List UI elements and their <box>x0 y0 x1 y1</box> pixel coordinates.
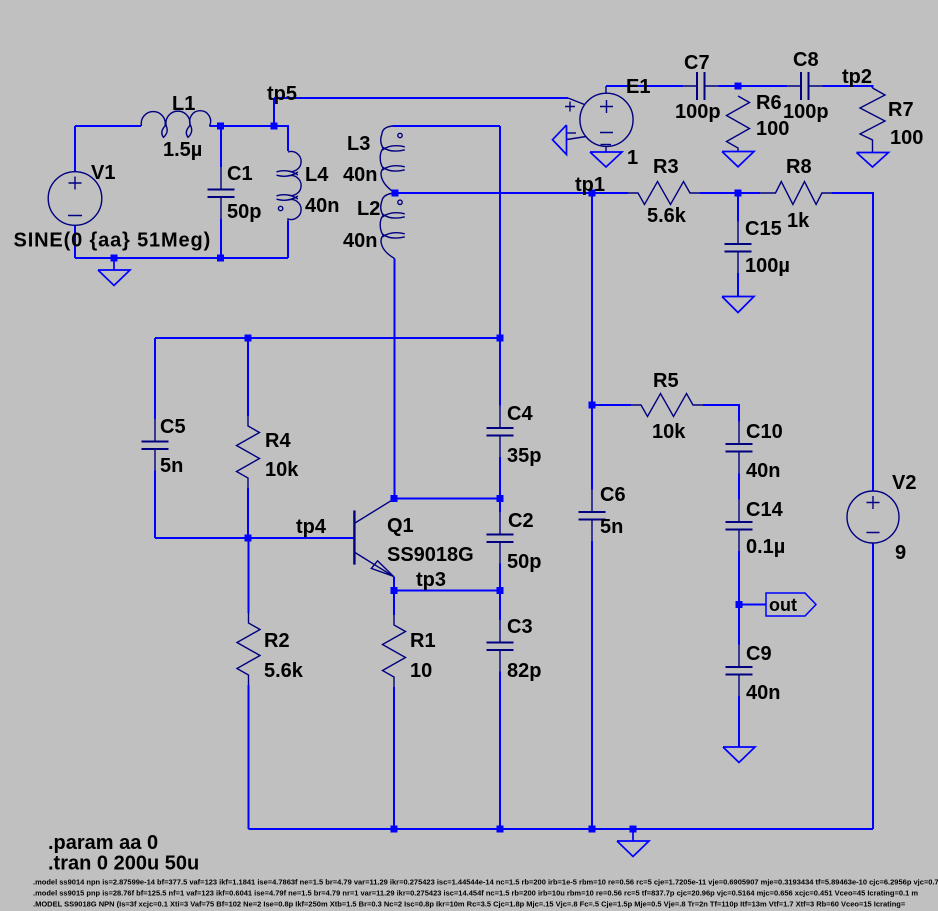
phase dot L3 <box>398 133 402 137</box>
svg-text:C10: C10 <box>746 421 783 443</box>
resistor R5 <box>631 394 703 417</box>
wire C7 to R6 node <box>719 85 739 87</box>
svg-text:C4: C4 <box>507 403 533 425</box>
svg-text:tp2: tp2 <box>842 66 872 88</box>
svg-text:9: 9 <box>895 542 906 564</box>
wire R3 right <box>700 192 738 194</box>
capacitor C7 <box>683 85 719 87</box>
transistor Q1 base bar <box>353 511 355 565</box>
svg-text:R5: R5 <box>653 370 679 392</box>
wire R8 right to V2 branch <box>832 193 873 491</box>
node C1 top <box>217 123 224 130</box>
ground under V1 <box>98 258 130 286</box>
svg-text:1.5µ: 1.5µ <box>163 139 202 161</box>
svg-text:5.6k: 5.6k <box>647 205 687 227</box>
svg-text:R4: R4 <box>265 430 291 452</box>
node C3 bus <box>497 826 504 833</box>
wire tp5 stub <box>273 98 275 126</box>
E1 bottom pin dash <box>601 144 612 146</box>
capacitor C5 <box>154 419 156 471</box>
svg-text:out: out <box>769 595 797 615</box>
node C2 bottom <box>497 587 504 594</box>
wire node to C8 <box>738 85 787 87</box>
inductor L2 <box>380 193 394 259</box>
ground C15 <box>722 297 754 313</box>
capacitor C6 <box>591 490 593 542</box>
node R1 bus <box>391 826 398 833</box>
wire x500 upper <box>499 126 501 406</box>
ground E1 bottom <box>590 152 622 167</box>
wire V1 top lead <box>74 126 76 172</box>
resistor R3 <box>628 182 700 205</box>
node C2 top <box>497 495 504 502</box>
ground R6 <box>722 152 754 167</box>
svg-text:100p: 100p <box>783 101 829 123</box>
wire R1 bottom <box>393 687 395 829</box>
svg-text:C7: C7 <box>684 52 710 74</box>
wire C8 to tp2 corner / R7 <box>823 86 873 88</box>
svg-text:5.6k: 5.6k <box>264 660 304 682</box>
node gnd bus <box>630 826 637 833</box>
svg-text:tp3: tp3 <box>416 569 446 591</box>
transistor Q1 emitter <box>355 553 394 577</box>
svg-text:0.1µ: 0.1µ <box>746 536 785 558</box>
wire out stub <box>739 604 766 606</box>
svg-text:R2: R2 <box>264 630 290 652</box>
svg-text:R8: R8 <box>786 156 812 178</box>
ground main bus <box>617 829 649 857</box>
wire R4 bottom <box>247 488 249 538</box>
wire R2 top <box>248 538 250 613</box>
svg-text:10: 10 <box>410 660 432 682</box>
wire V2 bottom to bus <box>872 543 874 829</box>
dependent source E1 <box>580 93 633 146</box>
wire V1 bottom lead <box>74 226 76 259</box>
wire tp1 down to C6 <box>591 193 593 490</box>
node R4 top <box>245 335 252 342</box>
capacitor C3 <box>499 620 501 672</box>
svg-text:1: 1 <box>627 147 638 169</box>
wire C15 top <box>737 193 739 222</box>
resistor R6 <box>727 96 750 152</box>
svg-text:.model ss9015 pnp is=28.76f bf: .model ss9015 pnp is=28.76f bf=125.5 nf=… <box>33 888 918 897</box>
svg-text:V1: V1 <box>91 162 115 184</box>
ground E1 left (rotated) <box>553 125 567 155</box>
capacitor C10 <box>738 422 740 474</box>
wire C10 to C14 <box>738 474 740 500</box>
svg-text:.MODEL SS9018G NPN (Is=3f xcjc: .MODEL SS9018G NPN (Is=3f xcjc=0.1 Xti=3… <box>33 899 906 908</box>
transistor Q1 emitter stub <box>393 577 395 591</box>
wire L2 bottom to collector node <box>394 259 396 499</box>
node R3-C15 <box>735 190 742 197</box>
svg-text:10k: 10k <box>265 459 299 481</box>
svg-text:35p: 35p <box>507 445 541 467</box>
svg-text:tp1: tp1 <box>575 174 605 196</box>
wire R5 left <box>592 404 631 406</box>
svg-text:tp4: tp4 <box>296 516 327 538</box>
wire C1 top <box>220 126 222 167</box>
svg-text:50p: 50p <box>227 201 261 223</box>
svg-text:C8: C8 <box>793 49 819 71</box>
svg-text:L4: L4 <box>305 164 329 186</box>
resistor R4 <box>237 416 260 488</box>
svg-text:R1: R1 <box>410 630 436 652</box>
svg-text:Q1: Q1 <box>387 515 414 537</box>
node C7-R6 <box>735 83 742 90</box>
capacitor C9 <box>738 645 740 697</box>
svg-text:100: 100 <box>890 127 923 149</box>
svg-text:40n: 40n <box>746 682 780 704</box>
resistor R8 <box>760 182 832 205</box>
wire C15 bottom to ground <box>737 273 739 296</box>
node tp4 <box>245 535 252 542</box>
wire R2 bottom <box>248 685 250 829</box>
svg-text:SINE(0 {aa} 51Meg): SINE(0 {aa} 51Meg) <box>14 230 212 252</box>
wire C5 bottom <box>154 471 156 539</box>
svg-text:R7: R7 <box>888 99 914 121</box>
svg-text:10k: 10k <box>652 421 686 443</box>
svg-text:L2: L2 <box>357 198 380 220</box>
svg-text:C9: C9 <box>746 643 772 665</box>
E1 small plus <box>565 102 575 112</box>
svg-text:.model ss9014 npn is=2.87599e-: .model ss9014 npn is=2.87599e-14 bf=377.… <box>33 877 938 886</box>
node V1 ground <box>111 255 118 262</box>
capacitor C8 <box>787 85 823 87</box>
wire E1 out top <box>606 85 683 87</box>
out port flag <box>766 593 816 616</box>
capacitor C15 <box>737 222 739 274</box>
svg-text:C3: C3 <box>507 616 533 638</box>
wire bottom rail V1 to L4 <box>75 257 288 259</box>
svg-text:50p: 50p <box>507 551 541 573</box>
resistor R7 <box>860 88 885 153</box>
node C6 bus <box>589 826 596 833</box>
phase dot L2 <box>398 200 402 204</box>
node emitter tp3 <box>391 587 398 594</box>
svg-text:.param aa 0: .param aa 0 <box>48 832 158 854</box>
wire x500 C4 to collector row <box>499 457 501 499</box>
wire emitter row y590 <box>394 590 500 592</box>
svg-text:82p: 82p <box>507 660 541 682</box>
wire base row y538 <box>155 537 354 539</box>
wire L3 top to x500 <box>393 125 501 127</box>
wire tp1 row y193 <box>395 192 592 194</box>
node collector <box>391 495 398 502</box>
inductor L1 <box>141 111 210 138</box>
svg-text:C1: C1 <box>227 163 253 185</box>
node out <box>736 601 743 608</box>
capacitor C4 <box>499 406 501 458</box>
svg-text:E1: E1 <box>626 76 650 98</box>
capacitor C2 <box>499 512 501 564</box>
wire node row y338 <box>155 337 500 339</box>
wire ground bus <box>249 828 874 830</box>
inductor L4 <box>288 152 301 221</box>
E1 minus input lead <box>567 137 586 140</box>
svg-text:R6: R6 <box>756 92 782 114</box>
svg-text:L1: L1 <box>172 93 195 115</box>
svg-text:tp5: tp5 <box>267 83 297 105</box>
wire tp5 to E1 plus input <box>274 97 568 99</box>
wire C5 top <box>154 338 156 419</box>
phase dot L4 <box>278 206 282 210</box>
svg-text:C15: C15 <box>745 218 782 240</box>
E1 small minus <box>566 132 576 134</box>
svg-text:C6: C6 <box>600 484 626 506</box>
wire C1 bottom <box>220 219 222 258</box>
transistor Q1 collector <box>355 499 394 523</box>
capacitor C1 <box>220 167 222 219</box>
svg-text:5n: 5n <box>600 516 623 538</box>
voltage source V1 <box>48 172 102 226</box>
svg-text:SS9018G: SS9018G <box>387 544 474 566</box>
transistor Q1 emitter arrow <box>371 561 393 577</box>
wire L4 top <box>274 126 288 151</box>
wire R8 left <box>738 192 760 194</box>
wire C2 top <box>499 499 501 513</box>
ground R7 <box>857 153 889 168</box>
node L4 top <box>271 123 278 130</box>
wire C6 bottom to bus <box>591 541 593 829</box>
voltage source V2 <box>847 491 899 543</box>
wire R3 left <box>592 192 628 194</box>
svg-text:100µ: 100µ <box>745 255 790 277</box>
wire L1 right to L4 node <box>210 125 275 127</box>
resistor R1 <box>383 615 406 687</box>
svg-text:40n: 40n <box>343 164 377 186</box>
svg-text:.tran 0 200u 50u: .tran 0 200u 50u <box>48 853 199 875</box>
wire R5 right to C10 <box>703 405 739 422</box>
wire out node to C9 <box>738 605 740 645</box>
svg-text:40n: 40n <box>746 460 780 482</box>
ground C9 <box>723 747 755 763</box>
svg-text:V2: V2 <box>892 472 916 494</box>
wire C2 bottom <box>499 564 501 591</box>
svg-text:L3: L3 <box>347 133 370 155</box>
node x500 y338 <box>497 335 504 342</box>
svg-text:C2: C2 <box>508 510 534 532</box>
svg-text:40n: 40n <box>343 230 377 252</box>
resistor R2 <box>237 613 260 685</box>
node tp1 <box>589 190 596 197</box>
svg-text:1k: 1k <box>787 210 810 232</box>
wire R1 top <box>393 591 395 616</box>
wire R4 top <box>247 338 249 416</box>
inductor L3 <box>380 126 395 193</box>
svg-text:C5: C5 <box>160 416 186 438</box>
wire C9 to ground <box>738 696 740 747</box>
wire C3 top <box>499 591 501 621</box>
svg-text:40n: 40n <box>305 195 339 217</box>
svg-text:R3: R3 <box>653 156 679 178</box>
wire V1 to L1 <box>75 125 141 127</box>
node C1 bottom <box>217 255 224 262</box>
wire collector row y498 <box>394 498 500 500</box>
capacitor C14 <box>738 500 740 552</box>
wire C14 to out node <box>738 551 740 605</box>
svg-text:C14: C14 <box>746 499 784 521</box>
wire L4 bottom <box>287 221 289 258</box>
svg-text:5n: 5n <box>160 455 183 477</box>
node L3-L2 junction <box>392 190 399 197</box>
wire C3 bottom <box>499 672 501 830</box>
svg-text:100p: 100p <box>675 101 721 123</box>
E1 plus input lead <box>568 98 585 105</box>
node R5 left <box>589 402 596 409</box>
